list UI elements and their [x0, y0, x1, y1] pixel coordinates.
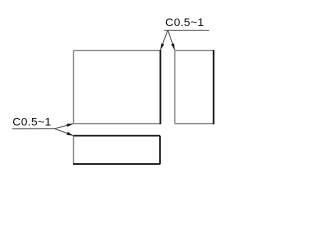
wire: right rect top edge — [175, 50, 214, 52]
wire: right rect left edge — [174, 51, 176, 124]
wire: big rect left edge — [73, 51, 75, 124]
wire: big rect top edge — [74, 50, 161, 52]
wire: bottom rect right edge — [159, 136, 161, 165]
wire: right rect bottom edge — [175, 123, 214, 125]
wire: bottom rect bottom edge — [73, 163, 160, 165]
svg-text:C0.5~1: C0.5~1 — [13, 117, 52, 129]
arrowhead to big rect top-right corner — [160, 43, 164, 50]
rectangle body (narrow right block) — [175, 50, 214, 124]
arrowhead to bottom rect top-left corner — [67, 132, 74, 136]
rectangle body (bottom bar block) — [73, 136, 160, 165]
leader line (left chamfer callout) — [12, 124, 73, 136]
svg-text:C0.5~1: C0.5~1 — [165, 17, 204, 29]
wire: top leader right arm — [168, 30, 175, 50]
arrowhead to big rect bottom-left corner — [67, 124, 74, 127]
wire: big rect right edge — [159, 50, 161, 124]
wire: left leader lower arm — [55, 129, 74, 136]
wire: top leader left arm — [160, 30, 167, 50]
rectangle body (large left block) — [74, 50, 161, 124]
leader line (top chamfer callout) — [160, 30, 209, 50]
wire: left leader upper arm — [55, 124, 74, 129]
wire: top leader horizontal — [164, 29, 209, 31]
wire: bottom rect top edge — [74, 135, 161, 137]
arrowhead to right rect top-left corner — [171, 43, 175, 50]
wire: left leader horizontal — [12, 128, 54, 130]
wire: bottom rect left edge — [73, 136, 75, 164]
wire: right rect right edge — [213, 50, 215, 124]
wire: big rect bottom edge — [74, 123, 161, 125]
